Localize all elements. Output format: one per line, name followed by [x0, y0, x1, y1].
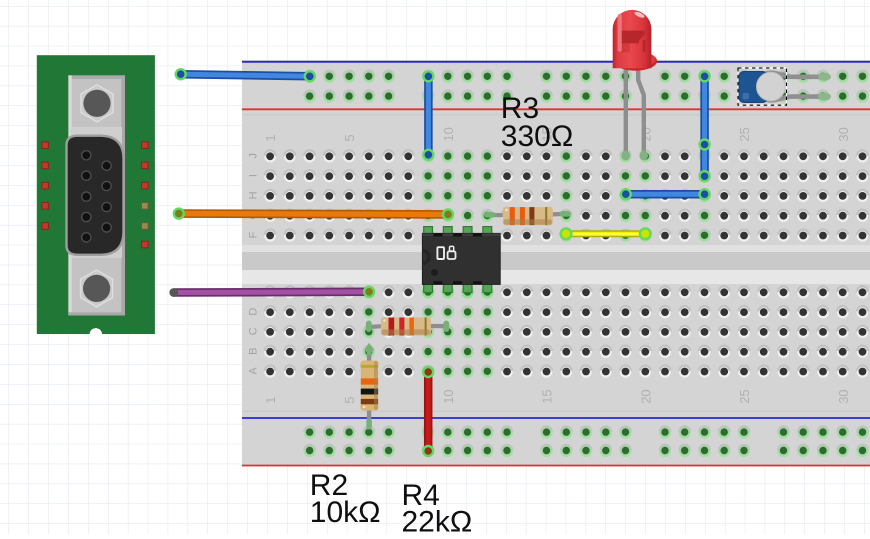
svg-text:15: 15 [540, 389, 555, 403]
svg-text:H: H [247, 191, 259, 199]
svg-text:25: 25 [737, 127, 752, 141]
svg-text:22kΩ: 22kΩ [402, 505, 473, 534]
svg-text:J: J [247, 153, 259, 159]
svg-text:F: F [247, 231, 259, 238]
svg-text:B: B [247, 348, 259, 355]
svg-text:10kΩ: 10kΩ [310, 496, 381, 529]
svg-text:330Ω: 330Ω [501, 120, 573, 153]
svg-text:1: 1 [263, 134, 278, 141]
svg-text:1: 1 [263, 397, 278, 404]
svg-text:10: 10 [441, 389, 456, 403]
svg-text:C: C [247, 327, 259, 335]
svg-text:25: 25 [737, 389, 752, 403]
svg-text:I: I [247, 174, 259, 177]
svg-text:20: 20 [638, 389, 653, 403]
svg-text:D: D [247, 308, 259, 316]
svg-text:30: 30 [836, 389, 851, 403]
svg-text:30: 30 [836, 127, 851, 141]
svg-text:A: A [247, 367, 259, 375]
svg-text:5: 5 [342, 134, 357, 141]
svg-text:5: 5 [342, 397, 357, 404]
svg-text:10: 10 [441, 127, 456, 141]
